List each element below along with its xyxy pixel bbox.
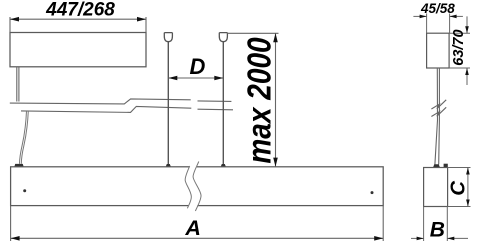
connector on side box xyxy=(444,164,448,167)
svg-text:45/58: 45/58 xyxy=(420,1,455,16)
bar break zigzag right xyxy=(193,162,201,212)
drop cord to luminaire xyxy=(20,111,29,164)
cable gland on luminaire xyxy=(14,164,23,167)
wire foot left xyxy=(166,164,171,167)
extension line A right xyxy=(382,206,384,241)
svg-text:B: B xyxy=(430,219,445,242)
extension line 63/70 bottom xyxy=(449,67,470,69)
wire foot right xyxy=(221,164,226,167)
extension line left 447/268 xyxy=(9,17,11,33)
luminaire side view xyxy=(424,168,448,207)
bar break white band xyxy=(185,162,201,212)
dimension line max 2000 xyxy=(273,33,278,166)
svg-text:C: C xyxy=(447,180,470,196)
dimension line 45/58 xyxy=(413,15,463,19)
extension line B right xyxy=(446,207,448,242)
canopy box front view xyxy=(10,33,146,67)
ceiling cup right xyxy=(219,33,227,42)
screw dot right xyxy=(371,191,374,194)
svg-text:D: D xyxy=(190,54,206,79)
screw dot left xyxy=(23,189,26,192)
extension line C top xyxy=(448,167,471,169)
suspension wire left xyxy=(167,42,169,167)
dimension line C xyxy=(466,168,470,207)
svg-text:447/268: 447/268 xyxy=(45,0,115,21)
dimension line B xyxy=(411,237,468,241)
suspension wire right xyxy=(222,42,224,167)
dimension line D xyxy=(168,76,223,81)
extension line C bottom xyxy=(448,206,471,208)
extension line 45/58 right xyxy=(449,14,451,34)
extension line 45/58 left xyxy=(426,14,428,34)
bar break zigzag left xyxy=(185,166,191,208)
extension line A left xyxy=(10,206,12,241)
extension line B left xyxy=(423,207,425,242)
supply cable lower line xyxy=(21,106,233,112)
ceiling cup left xyxy=(164,33,172,42)
dimension line 63/70 xyxy=(465,16,469,85)
cable leads from canopy xyxy=(16,67,18,102)
extension line 63/70 top xyxy=(449,32,470,34)
luminaire bar front view xyxy=(11,167,384,206)
dimension line A xyxy=(11,236,384,241)
svg-text:63/70: 63/70 xyxy=(451,29,467,65)
wire foot side view xyxy=(433,164,440,167)
wire pair side view xyxy=(435,68,440,165)
canopy box side view xyxy=(427,33,450,68)
svg-text:A: A xyxy=(184,216,201,240)
supply cable upper line xyxy=(10,99,232,104)
svg-text:max 2000: max 2000 xyxy=(241,37,278,163)
wire break mark lower xyxy=(431,107,446,116)
extension line right 447/268 xyxy=(145,17,147,33)
dimension line 447/268 xyxy=(10,17,146,22)
extension line max2000 top xyxy=(227,32,278,34)
wire break mark upper xyxy=(431,100,446,109)
